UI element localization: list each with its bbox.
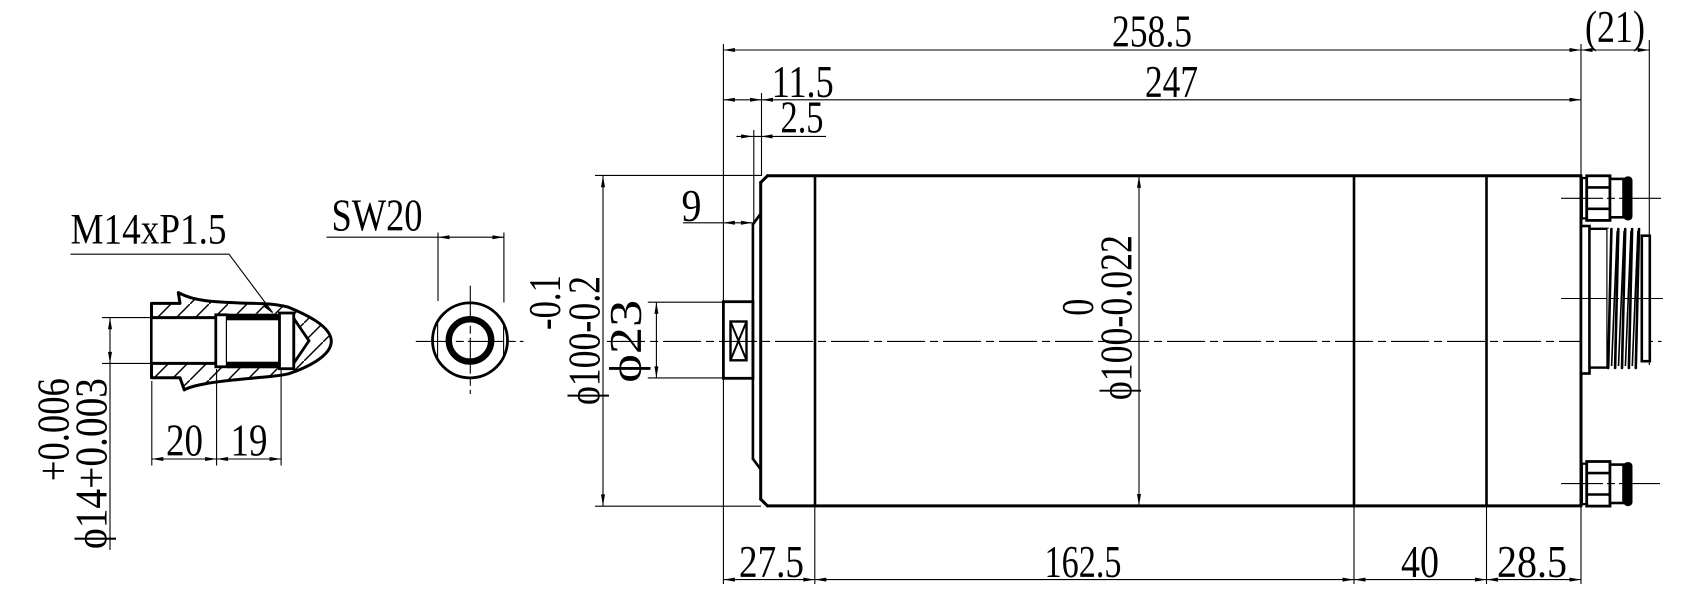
- end view centerlines: [416, 286, 524, 394]
- dimension 162.5: [815, 506, 1354, 587]
- internal joint line x=1354: [1353, 176, 1356, 506]
- dimension 28.5: [1487, 506, 1582, 587]
- svg-text:SW20: SW20: [332, 191, 423, 241]
- main axis centerline: [607, 340, 1662, 342]
- lower nipple centerline: [1561, 483, 1660, 485]
- shaft boss phi23: [723, 302, 753, 379]
- thread end ring: [280, 313, 294, 369]
- connector thread end cap: [1642, 236, 1650, 362]
- dimension 11.5: [723, 57, 833, 176]
- svg-text:M14xP1.5: M14xP1.5: [71, 207, 227, 254]
- dimension 2.5: [736, 93, 826, 223]
- svg-text:19: 19: [231, 416, 268, 466]
- upper air nipple fitting: [1582, 176, 1633, 221]
- threaded bore M14 (black crest bands): [227, 314, 280, 369]
- svg-text:9: 9: [682, 181, 702, 231]
- dimension phi14 +0.006/+0.003 (rotated): [29, 318, 153, 550]
- svg-text:40: 40: [1401, 537, 1439, 587]
- svg-text:(21): (21): [1585, 2, 1645, 52]
- svg-text:2.5: 2.5: [781, 93, 824, 143]
- bore phi14 (white): [152, 318, 217, 364]
- drill point cone: [294, 319, 309, 364]
- dimension 20: [152, 369, 281, 466]
- dimension phi100 0/-0.022 (rotated): [1053, 176, 1142, 505]
- internal joint line x=1486.5: [1485, 176, 1488, 506]
- svg-text:ϕ14+0.003: ϕ14+0.003: [67, 378, 117, 549]
- svg-text:ϕ100-0.2: ϕ100-0.2: [560, 276, 610, 405]
- dimension 19: [217, 370, 282, 466]
- dimension SW20: [327, 191, 504, 303]
- connector centerline: [1561, 298, 1663, 300]
- internal joint line x=815: [814, 176, 817, 506]
- dimension 9: [682, 181, 753, 231]
- main spindle body outline: [753, 176, 1581, 506]
- dimension 258.5: [723, 7, 1581, 584]
- dimension 247: [762, 57, 1582, 107]
- svg-text:28.5: 28.5: [1497, 537, 1567, 587]
- svg-text:27.5: 27.5: [739, 537, 804, 587]
- label M14xP1.5 with leader: [71, 207, 275, 315]
- dimension phi23 (rotated): [601, 300, 723, 383]
- connector thread loops: [1608, 229, 1650, 368]
- svg-text:ϕ100-0.022: ϕ100-0.022: [1092, 235, 1142, 400]
- shaft nose section outline (hatched): [152, 293, 332, 390]
- connector neck: [1590, 229, 1608, 368]
- svg-text:20: 20: [166, 416, 203, 466]
- lower air nipple fitting: [1582, 462, 1633, 507]
- thread ring M14: [449, 319, 491, 361]
- svg-text:162.5: 162.5: [1045, 537, 1122, 587]
- svg-text:247: 247: [1145, 57, 1198, 107]
- end view outer circle phi23: [433, 303, 508, 378]
- wrench flats SW20 chords: [438, 324, 504, 358]
- connector flange: [1581, 226, 1590, 374]
- dimension 40: [1354, 506, 1487, 587]
- dimension (21): [1581, 2, 1649, 365]
- dimension phi100 -0.1/-0.2 (rotated): [520, 175, 761, 506]
- thread relief groove: [216, 315, 227, 367]
- thread symbol box in boss: [731, 322, 747, 361]
- dimension 27.5: [723, 506, 1581, 587]
- upper nipple centerline: [1561, 197, 1665, 199]
- svg-text:258.5: 258.5: [1112, 7, 1192, 57]
